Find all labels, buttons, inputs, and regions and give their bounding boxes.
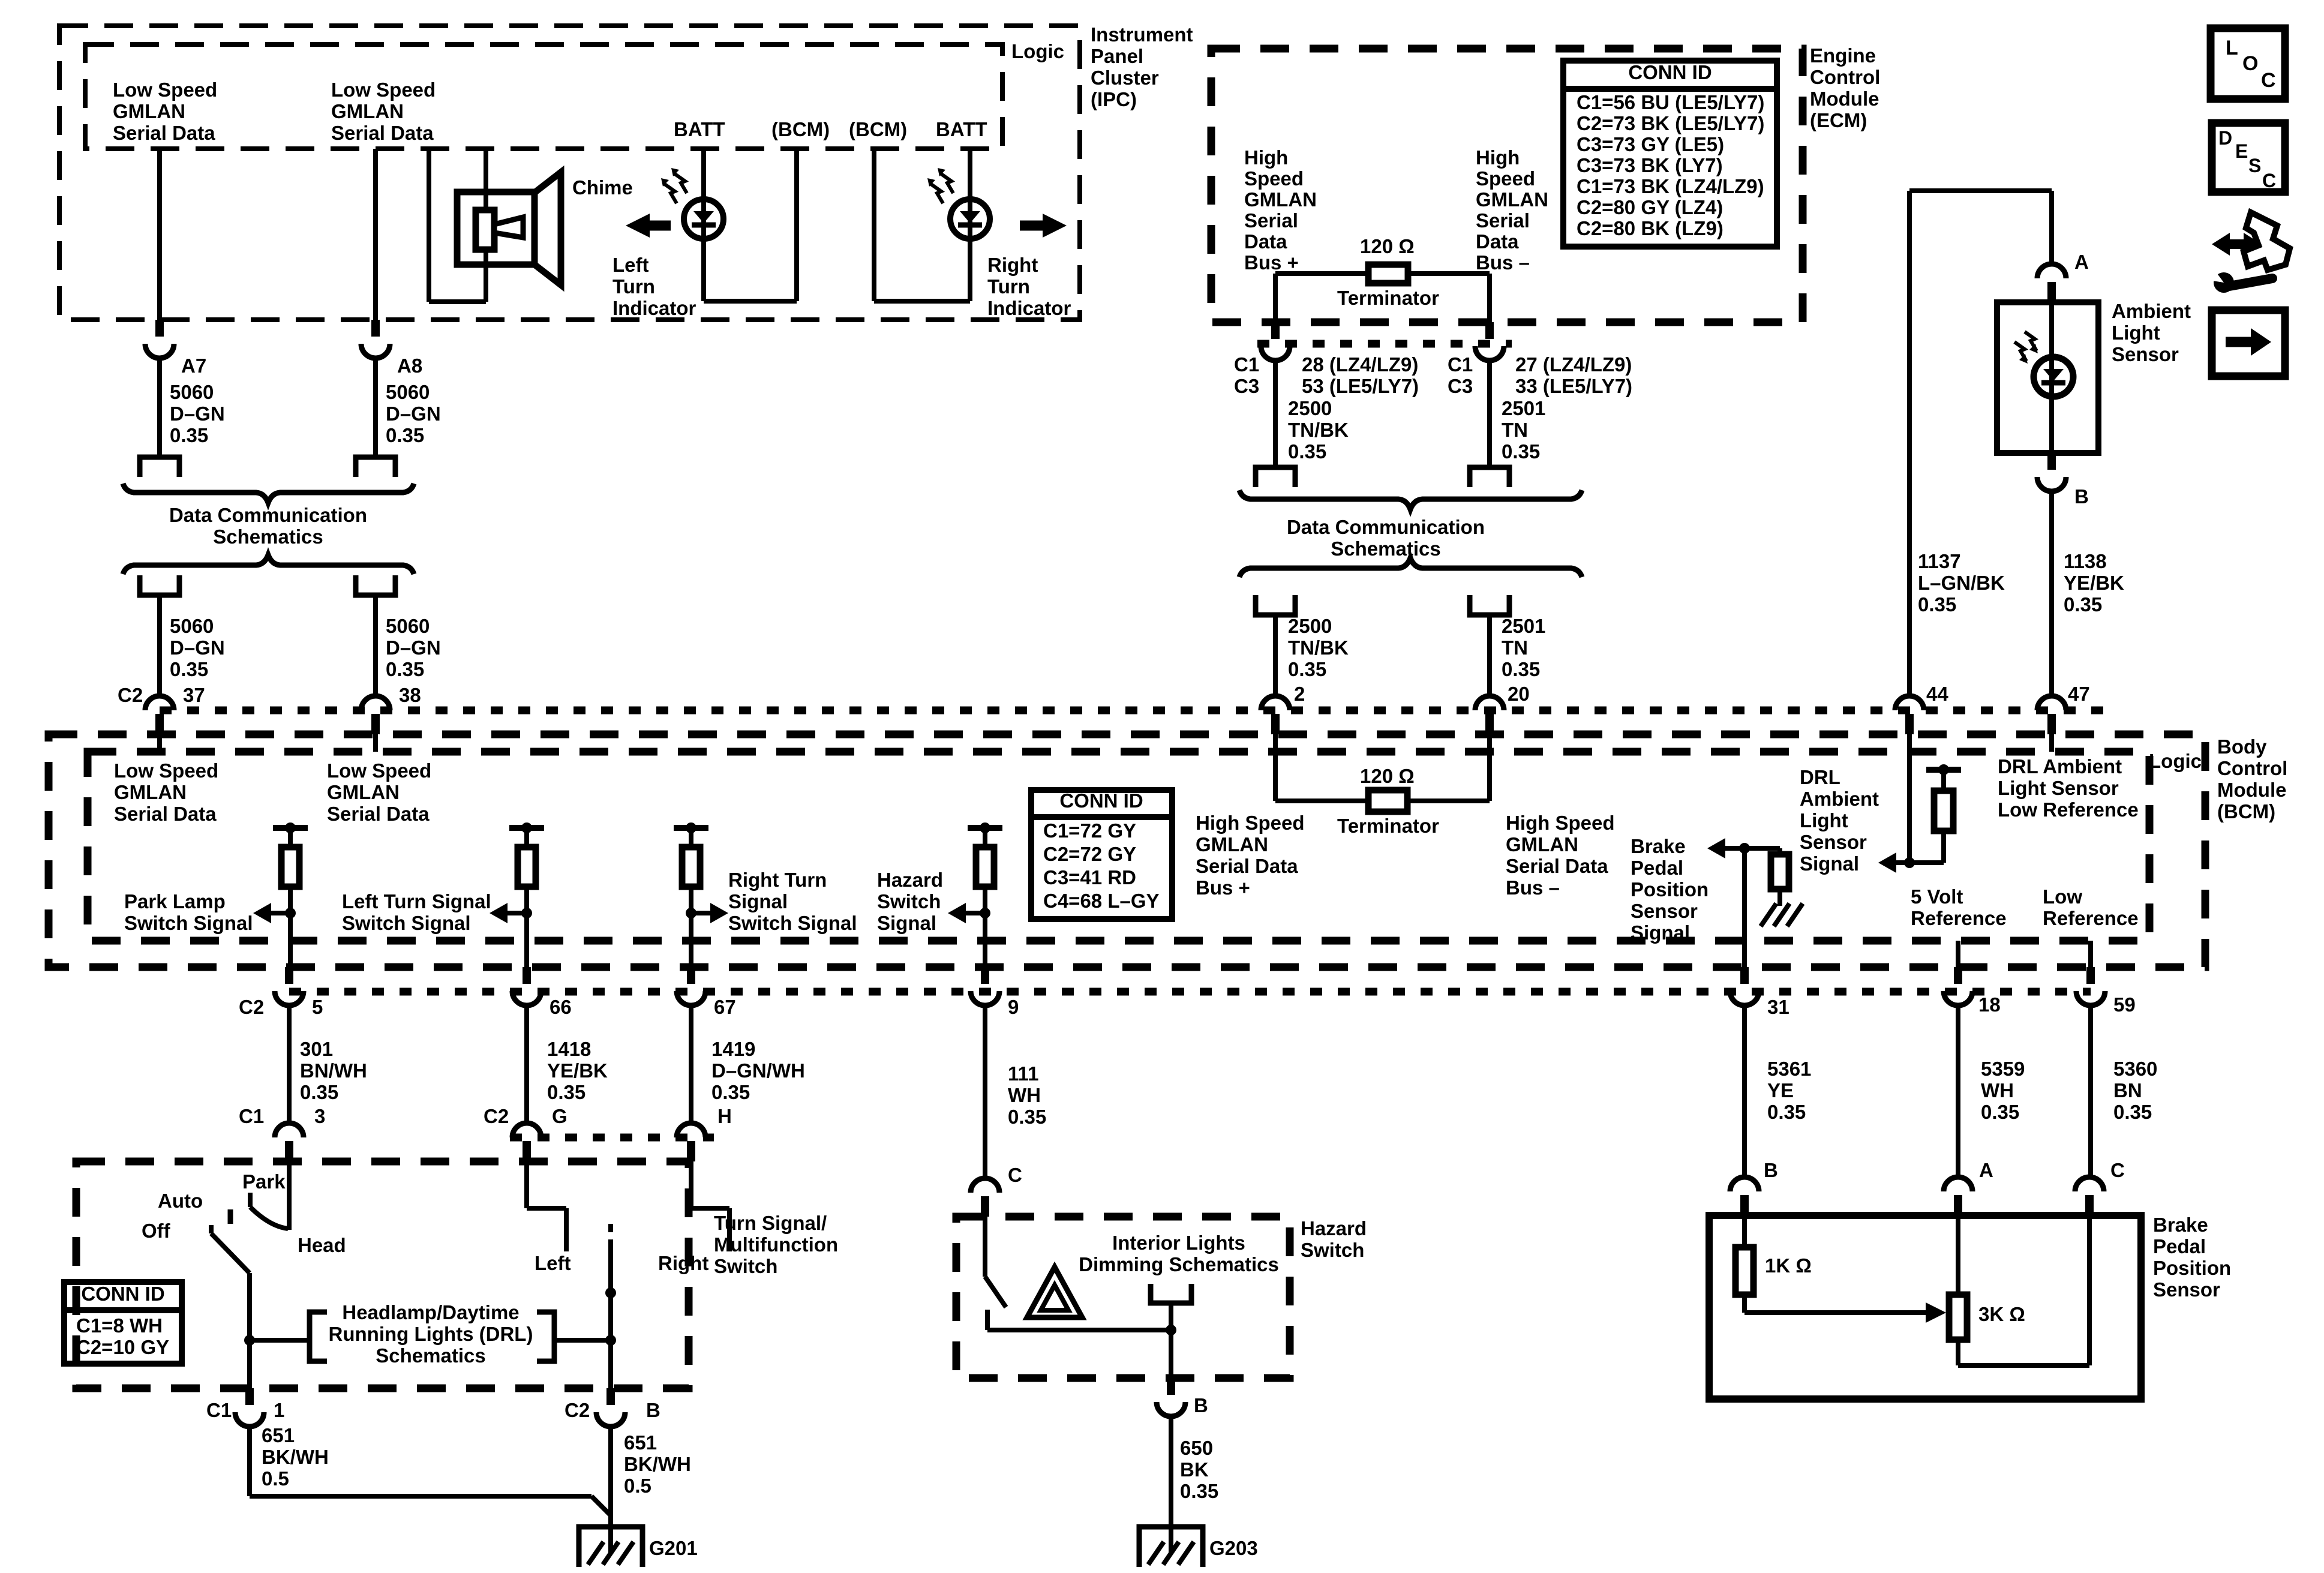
svg-text:BN: BN [2113, 1079, 2142, 1101]
svg-text:C2: C2 [239, 996, 264, 1018]
svg-text:3: 3 [314, 1105, 325, 1127]
svg-text:C3=73 BK (LY7): C3=73 BK (LY7) [1577, 154, 1723, 176]
svg-text:Low Speed: Low Speed [114, 760, 218, 782]
svg-text:33 (LE5/LY7): 33 (LE5/LY7) [1515, 375, 1632, 397]
svg-text:28 (LZ4/LZ9): 28 (LZ4/LZ9) [1302, 353, 1418, 376]
svg-text:0.35: 0.35 [1288, 658, 1326, 680]
svg-text:GMLAN: GMLAN [327, 781, 400, 803]
svg-text:Sensor: Sensor [1631, 900, 1698, 922]
svg-text:High: High [1476, 146, 1520, 169]
svg-text:Turn: Turn [612, 275, 655, 298]
svg-text:67: 67 [714, 996, 736, 1018]
svg-text:Indicator: Indicator [612, 297, 696, 319]
svg-text:YE: YE [1767, 1079, 1794, 1101]
svg-text:Right: Right [658, 1252, 708, 1274]
svg-text:Serial: Serial [1476, 209, 1530, 232]
svg-text:C: C [2262, 170, 2276, 191]
svg-text:G: G [552, 1105, 568, 1127]
svg-text:Data: Data [1244, 230, 1287, 253]
svg-text:C2=73 BK (LE5/LY7): C2=73 BK (LE5/LY7) [1577, 112, 1764, 134]
svg-text:D–GN/WH: D–GN/WH [711, 1059, 805, 1082]
svg-text:5 Volt: 5 Volt [1911, 885, 1963, 908]
svg-text:Park Lamp: Park Lamp [124, 890, 226, 912]
svg-text:CONN ID: CONN ID [81, 1283, 164, 1305]
svg-text:Light Sensor: Light Sensor [1998, 777, 2119, 799]
svg-text:Module: Module [2217, 779, 2286, 801]
svg-text:C1=72 GY: C1=72 GY [1043, 819, 1136, 842]
svg-text:Sensor: Sensor [2153, 1278, 2220, 1301]
svg-text:BK: BK [1180, 1458, 1209, 1481]
svg-text:A7: A7 [181, 355, 206, 377]
svg-text:Sensor: Sensor [2112, 343, 2179, 365]
svg-text:Body: Body [2217, 736, 2267, 758]
svg-text:Speed: Speed [1476, 167, 1535, 190]
svg-text:E: E [2235, 140, 2248, 162]
svg-text:YE/BK: YE/BK [547, 1059, 608, 1082]
svg-text:GMLAN: GMLAN [113, 100, 185, 122]
svg-text:59: 59 [2113, 993, 2136, 1016]
svg-text:High Speed: High Speed [1506, 812, 1615, 834]
svg-text:GMLAN: GMLAN [1244, 188, 1317, 211]
svg-text:Panel: Panel [1091, 45, 1143, 67]
svg-text:(ECM): (ECM) [1810, 109, 1867, 131]
svg-text:Left: Left [612, 254, 649, 276]
svg-text:651: 651 [624, 1431, 657, 1454]
svg-text:120 Ω: 120 Ω [1360, 765, 1415, 787]
svg-text:Position: Position [2153, 1257, 2231, 1279]
svg-text:G201: G201 [649, 1537, 698, 1559]
svg-text:Turn: Turn [987, 275, 1030, 298]
svg-text:3K Ω: 3K Ω [1978, 1303, 2025, 1325]
svg-text:C2: C2 [565, 1399, 590, 1421]
svg-text:C1: C1 [1234, 353, 1259, 376]
svg-text:Serial: Serial [1244, 209, 1298, 232]
svg-text:DRL Ambient: DRL Ambient [1998, 755, 2122, 778]
svg-text:53 (LE5/LY7): 53 (LE5/LY7) [1302, 375, 1419, 397]
svg-text:Schematics: Schematics [1331, 538, 1440, 560]
svg-text:C2=80 GY (LZ4): C2=80 GY (LZ4) [1577, 196, 1723, 218]
svg-text:C3=73 GY (LE5): C3=73 GY (LE5) [1577, 133, 1724, 155]
svg-text:Dimming Schematics: Dimming Schematics [1079, 1253, 1279, 1275]
svg-text:Data: Data [1476, 230, 1519, 253]
svg-text:D–GN: D–GN [170, 403, 225, 425]
svg-text:(BCM): (BCM) [849, 118, 907, 140]
svg-text:Right Turn: Right Turn [728, 869, 827, 891]
svg-text:Interior Lights: Interior Lights [1112, 1232, 1245, 1254]
svg-text:0.35: 0.35 [1502, 440, 1540, 463]
svg-text:C1: C1 [1448, 353, 1473, 376]
svg-text:Hazard: Hazard [877, 869, 943, 891]
svg-text:BK/WH: BK/WH [262, 1446, 329, 1468]
svg-text:(BCM): (BCM) [2217, 800, 2275, 822]
svg-text:Position: Position [1631, 878, 1709, 900]
svg-text:0.35: 0.35 [170, 658, 208, 680]
svg-text:Instrument: Instrument [1091, 23, 1193, 46]
svg-text:5361: 5361 [1767, 1058, 1811, 1080]
svg-text:WH: WH [1008, 1084, 1041, 1106]
svg-text:C3: C3 [1234, 375, 1259, 397]
svg-text:Switch: Switch [714, 1255, 777, 1277]
svg-text:Terminator: Terminator [1337, 287, 1439, 309]
svg-text:5060: 5060 [170, 381, 214, 403]
svg-text:2500: 2500 [1288, 397, 1332, 419]
svg-text:C1=56 BU (LE5/LY7): C1=56 BU (LE5/LY7) [1577, 91, 1764, 113]
svg-text:47: 47 [2068, 683, 2090, 705]
svg-text:WH: WH [1981, 1079, 2014, 1101]
svg-text:5360: 5360 [2113, 1058, 2157, 1080]
svg-text:D–GN: D–GN [170, 637, 225, 659]
svg-text:Signal: Signal [1631, 921, 1690, 944]
svg-text:Bus –: Bus – [1476, 251, 1530, 274]
svg-text:20: 20 [1508, 683, 1530, 705]
svg-text:Cluster: Cluster [1091, 67, 1159, 89]
svg-text:G203: G203 [1209, 1537, 1258, 1559]
svg-text:37: 37 [183, 684, 205, 706]
svg-text:2500: 2500 [1288, 615, 1332, 637]
svg-text:Control: Control [1810, 66, 1880, 88]
svg-text:Light: Light [1800, 809, 1848, 831]
svg-text:44: 44 [1926, 683, 1948, 705]
svg-text:Serial Data: Serial Data [114, 803, 217, 825]
svg-text:Ambient: Ambient [2112, 300, 2191, 322]
svg-text:5060: 5060 [170, 615, 214, 637]
svg-text:A: A [1979, 1159, 1993, 1181]
svg-text:Low Reference: Low Reference [1998, 798, 2139, 821]
svg-text:Headlamp/Daytime: Headlamp/Daytime [342, 1301, 519, 1323]
svg-text:BATT: BATT [674, 118, 725, 140]
svg-text:C2=72 GY: C2=72 GY [1043, 843, 1136, 865]
svg-text:BK/WH: BK/WH [624, 1453, 691, 1475]
svg-text:0.35: 0.35 [1180, 1480, 1218, 1502]
svg-text:Pedal: Pedal [2153, 1235, 2206, 1257]
svg-text:Signal: Signal [877, 912, 936, 934]
svg-text:TN: TN [1502, 637, 1528, 659]
svg-text:0.35: 0.35 [711, 1081, 750, 1103]
svg-text:Chime: Chime [572, 176, 633, 199]
svg-text:Left Turn Signal: Left Turn Signal [342, 890, 491, 912]
svg-text:Signal: Signal [728, 890, 788, 912]
svg-text:B: B [646, 1399, 660, 1421]
svg-text:0.35: 0.35 [2064, 593, 2102, 616]
svg-text:Logic: Logic [2149, 750, 2202, 772]
svg-text:Serial Data: Serial Data [331, 122, 434, 144]
svg-text:DRL: DRL [1800, 766, 1840, 788]
svg-text:Switch Signal: Switch Signal [728, 912, 857, 934]
svg-text:1: 1 [274, 1399, 284, 1421]
svg-text:C: C [1008, 1164, 1022, 1186]
svg-text:Switch Signal: Switch Signal [124, 912, 253, 934]
svg-text:650: 650 [1180, 1437, 1213, 1459]
svg-text:Serial Data: Serial Data [1506, 855, 1608, 877]
svg-text:B: B [1194, 1394, 1208, 1416]
svg-text:Control: Control [2217, 757, 2287, 779]
svg-text:C2: C2 [118, 684, 143, 706]
svg-text:Multifunction: Multifunction [714, 1233, 838, 1256]
svg-text:D–GN: D–GN [386, 637, 441, 659]
svg-text:Switch: Switch [1301, 1239, 1364, 1261]
svg-text:High Speed: High Speed [1196, 812, 1305, 834]
svg-text:Brake: Brake [1631, 835, 1686, 857]
svg-text:0.35: 0.35 [1008, 1106, 1046, 1128]
svg-text:B: B [1764, 1159, 1778, 1181]
svg-text:0.35: 0.35 [1502, 658, 1540, 680]
svg-text:C3=41 RD: C3=41 RD [1043, 866, 1136, 888]
svg-text:Data Communication: Data Communication [169, 504, 367, 526]
svg-text:C1=73 BK (LZ4/LZ9): C1=73 BK (LZ4/LZ9) [1577, 175, 1764, 197]
svg-text:S: S [2248, 155, 2261, 176]
svg-text:Low Speed: Low Speed [331, 79, 436, 101]
svg-text:H: H [717, 1105, 732, 1127]
svg-text:0.35: 0.35 [1767, 1101, 1806, 1123]
svg-text:2501: 2501 [1502, 397, 1545, 419]
svg-text:C1: C1 [206, 1399, 232, 1421]
svg-text:Ambient: Ambient [1800, 788, 1879, 810]
svg-text:Pedal: Pedal [1631, 857, 1683, 879]
svg-text:B: B [2074, 485, 2089, 508]
svg-text:38: 38 [399, 684, 421, 706]
svg-text:Running Lights (DRL): Running Lights (DRL) [329, 1323, 533, 1345]
svg-text:Module: Module [1810, 88, 1879, 110]
svg-text:27 (LZ4/LZ9): 27 (LZ4/LZ9) [1515, 353, 1632, 376]
svg-text:C: C [2110, 1159, 2125, 1181]
svg-text:D: D [2218, 127, 2232, 149]
svg-text:GMLAN: GMLAN [1196, 833, 1268, 855]
svg-text:Reference: Reference [1911, 907, 2007, 929]
svg-text:C1=8 WH: C1=8 WH [76, 1314, 163, 1337]
svg-text:Signal: Signal [1800, 852, 1859, 875]
svg-text:Low: Low [2043, 885, 2082, 908]
svg-text:1K Ω: 1K Ω [1765, 1254, 1812, 1277]
svg-text:(BCM): (BCM) [771, 118, 830, 140]
svg-text:C2=10 GY: C2=10 GY [76, 1336, 169, 1358]
svg-text:GMLAN: GMLAN [331, 100, 404, 122]
svg-text:BATT: BATT [936, 118, 987, 140]
svg-text:C2=80 BK (LZ9): C2=80 BK (LZ9) [1577, 217, 1724, 239]
svg-text:Left: Left [535, 1252, 571, 1274]
svg-text:0.35: 0.35 [1918, 593, 1956, 616]
svg-text:Engine: Engine [1810, 44, 1876, 67]
svg-text:1137: 1137 [1918, 550, 1961, 572]
svg-text:0.5: 0.5 [262, 1467, 289, 1490]
svg-text:Head: Head [298, 1234, 346, 1256]
svg-text:Park: Park [242, 1170, 286, 1193]
svg-text:GMLAN: GMLAN [114, 781, 187, 803]
svg-text:C: C [2261, 69, 2276, 92]
svg-text:0.35: 0.35 [1288, 440, 1326, 463]
svg-text:High: High [1244, 146, 1288, 169]
svg-text:Bus +: Bus + [1196, 876, 1250, 899]
svg-text:1418: 1418 [547, 1038, 591, 1060]
svg-text:Bus –: Bus – [1506, 876, 1560, 899]
svg-text:TN: TN [1502, 419, 1528, 441]
svg-text:5359: 5359 [1981, 1058, 2025, 1080]
svg-text:0.35: 0.35 [386, 424, 424, 446]
svg-text:A: A [2074, 251, 2089, 273]
svg-text:C2: C2 [484, 1105, 509, 1127]
svg-text:Serial Data: Serial Data [113, 122, 215, 144]
svg-text:Brake: Brake [2153, 1214, 2208, 1236]
svg-text:TN/BK: TN/BK [1288, 419, 1349, 441]
svg-text:0.35: 0.35 [300, 1081, 338, 1103]
svg-text:2501: 2501 [1502, 615, 1545, 637]
svg-text:Serial Data: Serial Data [1196, 855, 1298, 877]
svg-text:C3: C3 [1448, 375, 1473, 397]
svg-text:L: L [2226, 37, 2238, 59]
svg-text:0.35: 0.35 [170, 424, 208, 446]
svg-text:Reference: Reference [2043, 907, 2139, 929]
svg-text:Hazard: Hazard [1301, 1217, 1367, 1239]
svg-text:Indicator: Indicator [987, 297, 1071, 319]
svg-text:66: 66 [550, 996, 572, 1018]
svg-text:120 Ω: 120 Ω [1360, 235, 1415, 257]
svg-text:1419: 1419 [711, 1038, 755, 1060]
svg-text:Low Speed: Low Speed [327, 760, 431, 782]
svg-text:651: 651 [262, 1424, 295, 1446]
svg-text:0.5: 0.5 [624, 1475, 651, 1497]
svg-text:GMLAN: GMLAN [1476, 188, 1548, 211]
svg-text:Schematics: Schematics [213, 526, 323, 548]
svg-text:5: 5 [312, 996, 323, 1018]
svg-text:31: 31 [1767, 996, 1789, 1018]
svg-text:Speed: Speed [1244, 167, 1304, 190]
svg-text:Low Speed: Low Speed [113, 79, 217, 101]
svg-text:C1: C1 [239, 1105, 264, 1127]
svg-text:L–GN/BK: L–GN/BK [1918, 572, 2005, 594]
svg-text:Light: Light [2112, 322, 2160, 344]
svg-text:A8: A8 [397, 355, 422, 377]
svg-text:18: 18 [1978, 993, 2001, 1016]
svg-text:GMLAN: GMLAN [1506, 833, 1578, 855]
svg-text:Logic: Logic [1011, 40, 1064, 62]
svg-text:1138: 1138 [2064, 550, 2107, 572]
svg-text:Bus +: Bus + [1244, 251, 1299, 274]
svg-text:TN/BK: TN/BK [1288, 637, 1349, 659]
svg-text:Auto: Auto [158, 1190, 203, 1212]
svg-text:Right: Right [987, 254, 1038, 276]
svg-text:5060: 5060 [386, 615, 430, 637]
svg-text:Sensor: Sensor [1800, 831, 1867, 853]
svg-text:Data Communication: Data Communication [1287, 516, 1485, 538]
svg-text:Schematics: Schematics [376, 1344, 485, 1367]
svg-text:CONN ID: CONN ID [1059, 789, 1143, 812]
svg-text:YE/BK: YE/BK [2064, 572, 2124, 594]
svg-text:0.35: 0.35 [547, 1081, 585, 1103]
svg-text:O: O [2242, 52, 2258, 75]
svg-text:2: 2 [1294, 683, 1305, 705]
svg-text:9: 9 [1008, 996, 1019, 1018]
svg-text:(IPC): (IPC) [1091, 88, 1137, 110]
svg-text:0.35: 0.35 [2113, 1101, 2152, 1123]
svg-text:D–GN: D–GN [386, 403, 441, 425]
svg-text:Off: Off [142, 1220, 171, 1242]
svg-text:Switch: Switch [877, 890, 941, 912]
svg-text:5060: 5060 [386, 381, 430, 403]
svg-text:BN/WH: BN/WH [300, 1059, 367, 1082]
svg-text:Terminator: Terminator [1337, 815, 1439, 837]
svg-text:Serial Data: Serial Data [327, 803, 430, 825]
svg-text:Switch Signal: Switch Signal [342, 912, 471, 934]
svg-text:C4=68 L–GY: C4=68 L–GY [1043, 890, 1160, 912]
svg-text:0.35: 0.35 [1981, 1101, 2019, 1123]
svg-text:0.35: 0.35 [386, 658, 424, 680]
svg-text:301: 301 [300, 1038, 333, 1060]
svg-text:111: 111 [1008, 1062, 1038, 1085]
svg-text:CONN ID: CONN ID [1628, 61, 1712, 83]
